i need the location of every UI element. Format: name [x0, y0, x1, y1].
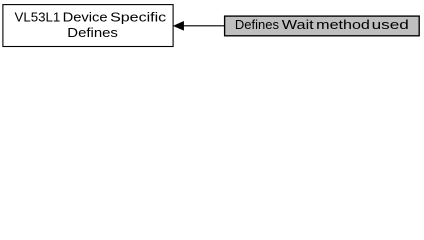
svg-text:Device: Device [63, 9, 108, 24]
svg-text:Specific: Specific [110, 9, 167, 24]
svg-text:VL53L1: VL53L1 [15, 9, 61, 24]
node: VL53L1 Device Specific Defines [3, 5, 173, 47]
svg-text:method: method [316, 17, 370, 32]
node: Defines Wait method used (current module, grey) [225, 16, 420, 36]
svg-text:used: used [372, 17, 409, 32]
svg-text:Defines: Defines [67, 25, 118, 40]
svg-text:Wait: Wait [282, 17, 314, 32]
svg-text:Defines: Defines [235, 17, 279, 32]
wire: dependency edge [174, 22, 224, 31]
